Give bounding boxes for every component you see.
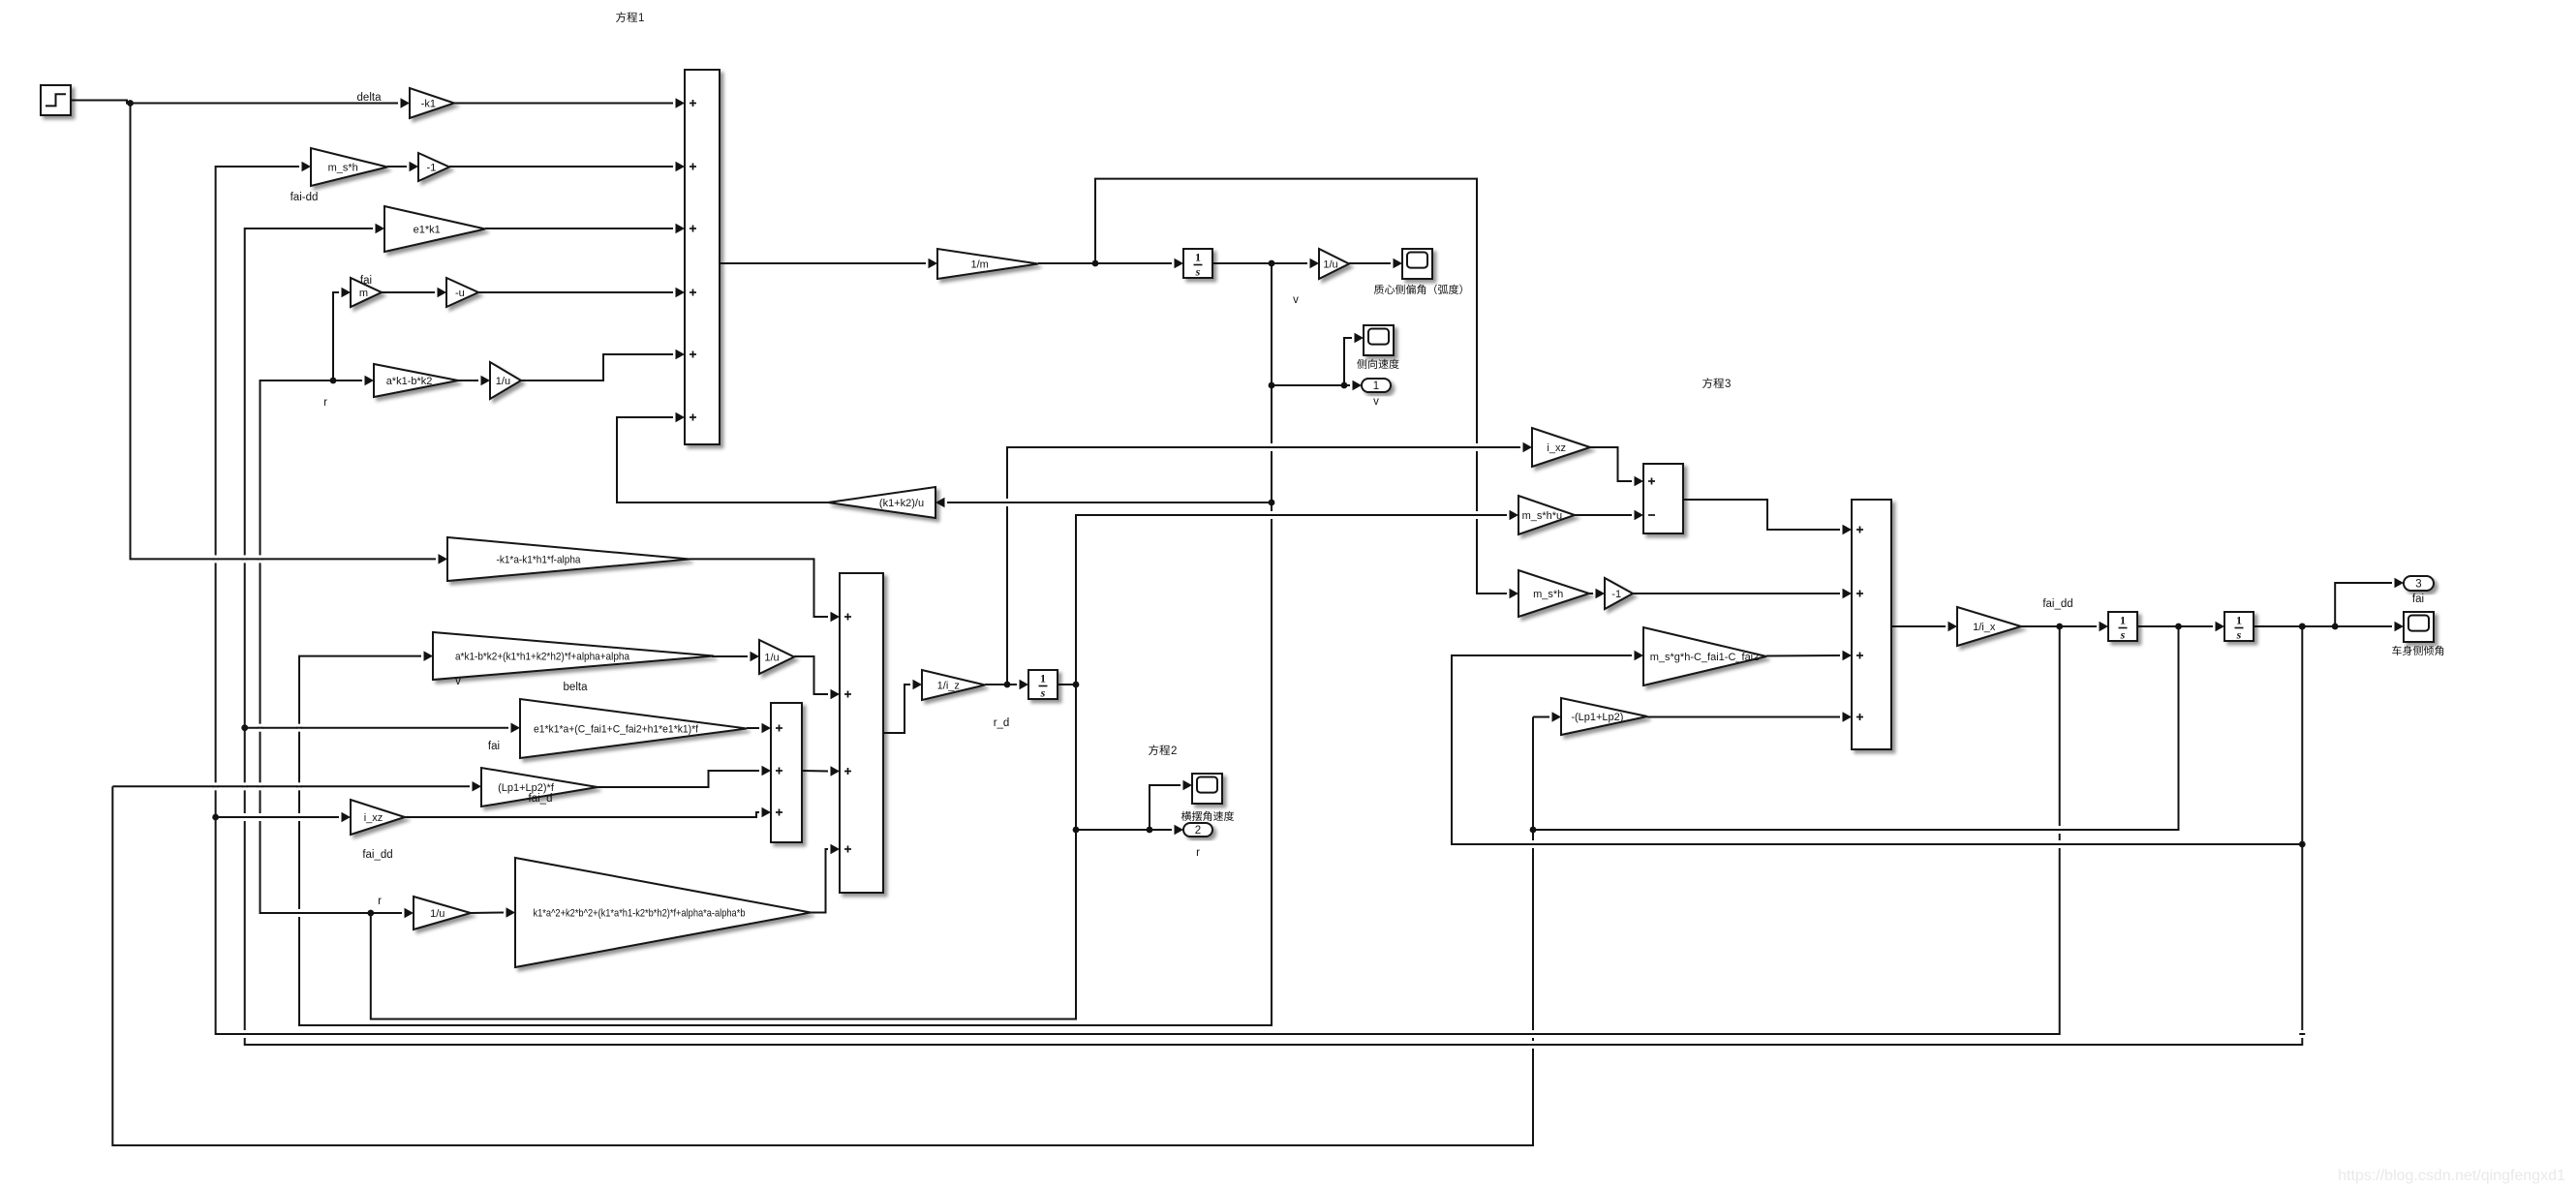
svg-text:-u: -u [455, 288, 465, 299]
svg-text:a*k1-b*k2: a*k1-b*k2 [386, 376, 433, 387]
svg-text:a*k1-b*k2+(k1*h1+k2*h2)*f+alph: a*k1-b*k2+(k1*h1+k2*h2)*f+alpha+alpha [455, 651, 630, 662]
svg-text:m_s*g*h-C_fai1-C_fai2: m_s*g*h-C_fai1-C_fai2 [1650, 652, 1760, 663]
svg-text:r: r [378, 896, 382, 907]
svg-text:r: r [323, 397, 327, 409]
svg-text:v: v [1293, 294, 1299, 306]
svg-text:(k1+k2)/u: (k1+k2)/u [879, 498, 924, 509]
svg-text:1/u: 1/u [764, 652, 779, 663]
svg-text:fai_dd: fai_dd [362, 849, 392, 861]
svg-text:belta: belta [564, 682, 589, 693]
svg-text:-1: -1 [427, 162, 437, 173]
svg-text:-(Lp1+Lp2): -(Lp1+Lp2) [1571, 712, 1623, 723]
svg-text:k1*a^2+k2*b^2+(k1*a*h1-k2*b*h2: k1*a^2+k2*b^2+(k1*a*h1-k2*b*h2)*f+alpha*… [534, 907, 746, 919]
svg-text:fai_dd: fai_dd [2042, 598, 2072, 610]
svg-text:s: s [2236, 628, 2242, 642]
svg-text:fai: fai [360, 275, 372, 287]
svg-text:1/i_z: 1/i_z [937, 680, 960, 691]
svg-text:https://blog.csdn.net/qingfeng: https://blog.csdn.net/qingfengxd1 [2338, 1168, 2565, 1184]
svg-text:1: 1 [1195, 251, 1201, 264]
svg-text:s: s [1040, 686, 1046, 700]
svg-text:e1*k1: e1*k1 [414, 224, 441, 235]
svg-text:m_s*h: m_s*h [328, 162, 358, 173]
svg-text:3: 3 [1725, 379, 1731, 390]
svg-text:m: m [359, 288, 368, 299]
svg-text:2: 2 [1171, 746, 1177, 757]
svg-text:1: 1 [1040, 672, 1046, 685]
svg-text:fai-dd: fai-dd [291, 192, 319, 203]
svg-text:3: 3 [2415, 579, 2421, 591]
svg-text:m_s*h: m_s*h [1533, 589, 1563, 600]
svg-text:1: 1 [2236, 614, 2242, 627]
svg-text:1/m: 1/m [971, 259, 989, 270]
svg-text:1: 1 [2120, 614, 2126, 627]
svg-text:1/u: 1/u [430, 908, 445, 920]
svg-text:delta: delta [357, 92, 383, 104]
svg-text:fai: fai [2412, 593, 2424, 605]
svg-text:i_xz: i_xz [1547, 442, 1566, 454]
svg-text:v: v [1373, 396, 1379, 408]
svg-text:1/i_x: 1/i_x [1973, 622, 1996, 633]
svg-text:m_s*h*u: m_s*h*u [1522, 510, 1563, 522]
svg-text:-1: -1 [1611, 589, 1621, 600]
svg-text:2: 2 [1195, 825, 1201, 837]
svg-text:s: s [2120, 628, 2126, 642]
svg-text:fai: fai [488, 741, 500, 752]
svg-text:s: s [1195, 265, 1201, 279]
svg-text:i_xz: i_xz [364, 812, 383, 824]
svg-text:1: 1 [1373, 380, 1379, 392]
svg-text:r_d: r_d [994, 717, 1010, 729]
svg-text:fai_d: fai_d [529, 793, 553, 805]
svg-text:1: 1 [638, 13, 644, 24]
svg-text:r: r [1196, 847, 1200, 859]
svg-text:1/u: 1/u [496, 376, 510, 387]
svg-text:1/u: 1/u [1323, 259, 1337, 270]
svg-text:v: v [455, 676, 461, 687]
svg-text:e1*k1*a+(C_fai1+C_fai2+h1*e1*k: e1*k1*a+(C_fai1+C_fai2+h1*e1*k1)*f [534, 723, 699, 735]
svg-text:-k1: -k1 [421, 98, 436, 109]
svg-text:-k1*a-k1*h1*f-alpha: -k1*a-k1*h1*f-alpha [497, 554, 582, 565]
